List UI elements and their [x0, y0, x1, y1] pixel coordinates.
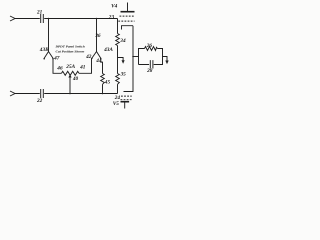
wire resistor 45 to rail: [102, 84, 104, 93]
switch 43B: [44, 52, 53, 59]
capacitor 21: [41, 14, 44, 23]
tube V5 plate lead: [124, 102, 126, 108]
svg-text:28: 28: [146, 68, 153, 74]
node 45-rail: [102, 93, 104, 95]
svg-text:25A: 25A: [65, 64, 75, 70]
wire top bus: [44, 18, 117, 20]
capacitor 28: [150, 60, 153, 68]
capacitor 22: [41, 89, 44, 98]
svg-text:41: 41: [79, 65, 86, 71]
tube V5 grid 1: [121, 95, 132, 97]
svg-text:35: 35: [120, 72, 127, 78]
svg-text:V4: V4: [111, 4, 118, 10]
svg-text:43B: 43B: [39, 47, 49, 53]
tube V4 cathode lead down: [124, 26, 134, 92]
resistor 45: [101, 74, 105, 85]
tube V4 screen grid: [120, 15, 135, 17]
svg-text:23: 23: [108, 14, 115, 20]
svg-text:22: 22: [36, 98, 43, 104]
wire throw 47 to pot: [53, 59, 62, 73]
svg-text:42: 42: [85, 54, 92, 60]
wire cathode to RC network: [133, 56, 139, 58]
tube V4 cathode: [122, 26, 134, 30]
tube V5 plate: [121, 101, 130, 103]
svg-text:43A: 43A: [103, 47, 113, 53]
svg-text:26: 26: [146, 43, 153, 49]
output arrow: [165, 61, 168, 65]
svg-text:DPDT Panel Switch: DPDT Panel Switch: [55, 45, 85, 49]
tube V5 grid 2: [121, 99, 133, 101]
tube V4 control grid: [118, 20, 134, 22]
tube V4 plate: [121, 11, 135, 13]
potentiometer 25A: [62, 71, 79, 75]
wire grid drop to resistor 34: [117, 19, 119, 34]
resistor 34: [116, 34, 120, 46]
ground arrow branch: [118, 58, 124, 62]
node cathode output: [132, 56, 134, 58]
svg-text:Cut Position Shown: Cut Position Shown: [56, 49, 85, 53]
svg-text:V5: V5: [113, 101, 120, 107]
wiper arrow 40: [69, 76, 71, 93]
node junction top-right: [96, 18, 98, 20]
svg-text:46: 46: [56, 65, 63, 71]
input terminal bottom: [10, 91, 15, 96]
tube V4 plate lead: [127, 3, 129, 12]
switch 43A: [92, 52, 101, 59]
wire throw 44 to resistor 45: [101, 59, 103, 74]
svg-text:40: 40: [72, 76, 79, 82]
wire RC output: [163, 57, 168, 62]
wire bottom rail: [44, 93, 117, 95]
svg-text:45: 45: [104, 80, 111, 86]
svg-text:21: 21: [36, 10, 43, 16]
resistor 35: [116, 74, 120, 85]
wire 36 pole drop: [96, 19, 98, 52]
node wiper-rail: [69, 93, 71, 95]
input terminal top: [10, 16, 15, 21]
RC network frame: [139, 49, 163, 65]
wire top input: [15, 18, 40, 20]
resistor 26: [145, 47, 158, 51]
node junction top-left: [48, 18, 50, 20]
wire resistor 35 to rail: [117, 84, 119, 93]
wire 43B pole drop: [48, 19, 50, 52]
wire pot right to 42 riser: [79, 58, 92, 73]
svg-text:47: 47: [53, 56, 60, 62]
wire 34 to 35: [117, 46, 119, 74]
svg-text:34: 34: [119, 38, 126, 44]
wire bottom input: [15, 93, 40, 95]
svg-text:36: 36: [94, 33, 101, 39]
